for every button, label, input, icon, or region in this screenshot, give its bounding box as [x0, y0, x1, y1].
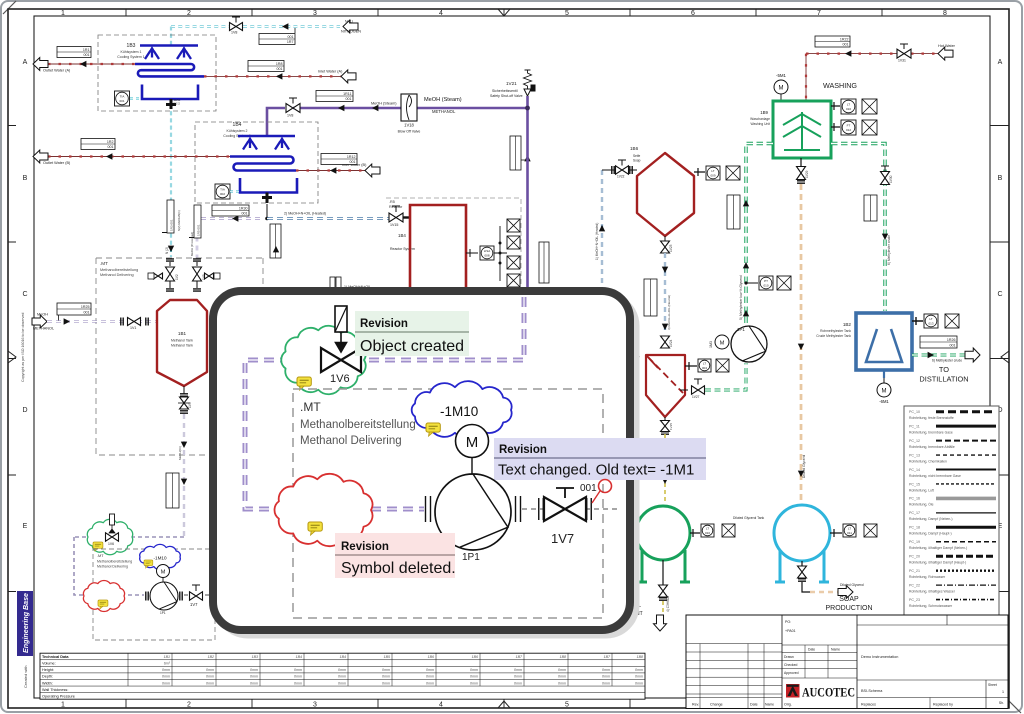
valve 1V8 steam [286, 98, 300, 113]
svg-text:6) Methylester crude: 6) Methylester crude [932, 359, 962, 363]
row letters left [22, 59, 27, 646]
svg-text:001: 001 [350, 160, 356, 164]
instrument box 1R7 [259, 34, 295, 45]
svg-text:001: 001 [84, 311, 90, 315]
instrument xbox r1 [507, 219, 520, 232]
svg-text:Sicherheitsventil: Sicherheitsventil [492, 89, 518, 93]
separator 1B7 [646, 355, 685, 417]
svg-text:002: 002 [220, 192, 225, 196]
svg-text:.MT: .MT [97, 554, 104, 558]
svg-text:Kühlsystem 1: Kühlsystem 1 [120, 50, 141, 54]
revision cloud blue [412, 381, 512, 439]
motor -5M1 [774, 80, 788, 94]
svg-text:1V23: 1V23 [669, 244, 673, 252]
flow arrow green down [882, 234, 888, 240]
cooler 1B3 basin [142, 85, 198, 100]
tank 1B8 cyan [774, 505, 830, 561]
svg-text:1B6: 1B6 [630, 146, 639, 151]
svg-text:1V6: 1V6 [108, 542, 114, 546]
svg-text:Revision: Revision [499, 444, 547, 456]
deleted symbol marker [592, 480, 612, 504]
valve actuator 1V6 [335, 306, 347, 352]
svg-text:Methanol Tank: Methanol Tank [171, 344, 193, 348]
arrow down vertical plant [654, 615, 667, 631]
svg-text:METHANOL: METHANOL [432, 109, 456, 114]
wire TIA 1B4 stub [230, 191, 240, 193]
svg-text:PC_22: PC_22 [909, 583, 920, 587]
svg-text:0mm: 0mm [635, 668, 643, 672]
valve 1V26 [659, 560, 668, 600]
svg-text:M: M [466, 434, 479, 451]
wire mini loop left [74, 537, 144, 595]
svg-text:.R5: .R5 [389, 200, 395, 204]
control valve 1V5 [193, 259, 202, 291]
valve 1V28 [798, 561, 807, 581]
engineering base banner [17, 591, 33, 656]
instrument tag cyan drop [162, 200, 174, 233]
instrument pair left of green [706, 166, 740, 180]
wire green left leg [746, 144, 773, 327]
svg-text:010: 010 [705, 531, 710, 535]
instrument xbox r2 [507, 236, 520, 249]
svg-text:MeOH (Steam): MeOH (Steam) [371, 102, 397, 106]
svg-text:1V15: 1V15 [390, 223, 398, 227]
svg-text:1B6: 1B6 [472, 655, 478, 659]
svg-text:8: 8 [943, 10, 947, 17]
svg-text:N(2)·MeOH/N(1): N(2)·MeOH/N(1) [177, 210, 181, 231]
svg-text:Rohrleitung, ölhaltiger Dampf: Rohrleitung, ölhaltiger Dampf (Haupt-) [909, 561, 966, 565]
wire green pump suction [705, 363, 746, 390]
svg-text:Hot Water: Hot Water [938, 44, 956, 48]
svg-text:0mm: 0mm [558, 675, 566, 679]
svg-text:1V21: 1V21 [506, 81, 517, 86]
arrow inlet water A [341, 70, 356, 83]
wire green tank right stub [690, 529, 700, 537]
svg-text:0mm: 0mm [382, 668, 390, 672]
svg-text:1R1: 1R1 [83, 48, 90, 52]
motor M mini [157, 565, 170, 578]
technical data table [40, 653, 645, 699]
svg-text:PC_13: PC_13 [909, 453, 920, 457]
valve 1V6 mini [106, 514, 119, 541]
svg-text:3: 3 [313, 702, 317, 709]
wire mini loop [74, 536, 184, 538]
callout shadow [218, 296, 636, 635]
wire LISA to cluster [494, 226, 507, 281]
svg-text:1P1: 1P1 [160, 611, 166, 615]
svg-text:1B9: 1B9 [760, 110, 768, 115]
instrument box 1R30 [212, 205, 249, 216]
svg-text:001: 001 [288, 35, 294, 39]
instrument box 1R12 [321, 154, 357, 165]
svg-text:Name: Name [831, 648, 840, 652]
svg-text:5: 5 [565, 702, 569, 709]
svg-text:B: B [998, 175, 1003, 182]
svg-text:+PA01: +PA01 [785, 629, 796, 633]
svg-text:1P1: 1P1 [737, 327, 745, 332]
flow arrow on outlet A [80, 61, 86, 67]
svg-text:1: 1 [61, 10, 65, 17]
arrow outlet water B [33, 150, 48, 163]
flow arrow inlet A [276, 73, 282, 79]
svg-text:1R26: 1R26 [947, 338, 956, 342]
svg-text:1B1: 1B1 [178, 331, 187, 336]
region box MT dashed [96, 258, 263, 455]
svg-text:1B8: 1B8 [637, 655, 643, 659]
svg-text:C: C [22, 291, 27, 298]
svg-text:Rohrleitung, ölhaltiger Dampf: Rohrleitung, ölhaltiger Dampf (Neben-) [909, 546, 967, 550]
wire MeOH steam purple [267, 108, 528, 136]
svg-text:0mm: 0mm [294, 668, 302, 672]
flow arrow purple 2 [372, 105, 378, 111]
cooler 1B3 top line [140, 44, 198, 46]
wire 1R25 ref [58, 315, 60, 322]
instrument LT 1B7 [698, 359, 711, 372]
svg-text:PC_11: PC_11 [909, 424, 920, 428]
svg-text:SEN1: SEN1 [174, 98, 181, 102]
svg-text:6: 6 [691, 10, 695, 17]
wire 1B1 drop [183, 414, 185, 537]
svg-text:2: 2 [187, 10, 191, 17]
revision cloud green [281, 326, 365, 394]
instrument vbox purple drop [510, 136, 521, 170]
flange 1V1 right [146, 318, 148, 326]
svg-text:1R3·001: 1R3·001 [170, 219, 174, 231]
svg-text:Blow Off Valve: Blow Off Valve [398, 130, 421, 134]
valve 1V3 [178, 397, 190, 409]
svg-text:Volume:: Volume: [42, 662, 56, 666]
svg-text:PC_18: PC_18 [909, 526, 920, 530]
svg-text:0mm: 0mm [294, 681, 302, 685]
svg-text:BSI-Schema: BSI-Schema [861, 689, 883, 693]
revision label symbol deleted [335, 533, 456, 578]
svg-text:001: 001 [950, 344, 956, 348]
svg-text:4: 4 [439, 702, 443, 709]
tank 1B1 [157, 300, 207, 386]
yellow tag mini green [93, 542, 103, 551]
svg-text:5: 5 [565, 10, 569, 17]
svg-text:Copyright as per ISO 16016 to: Copyright as per ISO 16016 to be observe… [21, 313, 25, 382]
svg-text:MeOH (Processed): MeOH (Processed) [190, 232, 194, 256]
column boundary ticks [126, 9, 882, 708]
cooler 1B4 spray 2 [279, 137, 285, 143]
svg-text:Rohrleitung, brennbare Gase: Rohrleitung, brennbare Gase [909, 430, 953, 434]
valve 1V30 [879, 166, 891, 185]
svg-text:0mm: 0mm [558, 681, 566, 685]
svg-text:001: 001 [119, 99, 124, 103]
svg-text:Replaces: Replaces [861, 703, 876, 707]
svg-text:1V22: 1V22 [617, 175, 625, 179]
wire inlet water A [204, 75, 341, 77]
instrument vbox green1 [727, 195, 740, 229]
svg-text:M: M [720, 341, 725, 347]
svg-text:1B3: 1B3 [127, 43, 136, 49]
revision label object created [355, 311, 469, 356]
wire 1B2 motor [883, 370, 885, 378]
flow arrow hot water [845, 50, 851, 56]
svg-text:Soap: Soap [633, 159, 641, 163]
column numbers top [61, 10, 947, 17]
flow arrow 1B6 down [662, 267, 668, 273]
cooler 1B4 top line [238, 135, 295, 137]
svg-text:0mm: 0mm [635, 675, 643, 679]
svg-text:0mm: 0mm [514, 675, 522, 679]
wire MeOH lavender [47, 320, 157, 322]
svg-text:C: C [997, 291, 1002, 298]
svg-text:Diluted Glycerol: Diluted Glycerol [802, 454, 806, 478]
instrument xbox 1B2 [945, 314, 959, 328]
wire 1B1 outlet [183, 386, 185, 394]
tank 1B6 [637, 153, 694, 236]
svg-text:Rohrleitung, Dampf (Haupt-): Rohrleitung, Dampf (Haupt-) [909, 532, 952, 536]
svg-text:PC_23: PC_23 [909, 598, 920, 602]
wire outlet water B [48, 156, 230, 158]
svg-text:N (2): N (2) [165, 247, 169, 254]
svg-text:A: A [998, 59, 1003, 66]
junction dots cluster [499, 252, 502, 255]
instrument TIA 1B3 [115, 91, 130, 106]
pump 1P1 main [731, 326, 767, 362]
instrument tag lavender drop [189, 205, 201, 238]
svg-text:1V1: 1V1 [130, 326, 136, 330]
svg-text:7: 7 [817, 10, 821, 17]
svg-text:001: 001 [346, 97, 352, 101]
wire cyan 1B3 top [170, 27, 172, 46]
svg-text:1B3: 1B3 [252, 655, 258, 659]
valve 1V1 [128, 318, 141, 326]
flange pump right [516, 496, 521, 522]
yellow tag mini blue [144, 560, 153, 568]
svg-text:009: 009 [710, 173, 715, 177]
arrow outlet water A [33, 58, 48, 71]
motor 1M3 [715, 335, 729, 349]
wire reactor to LISA [466, 249, 478, 257]
instrument vbox drop [166, 473, 179, 508]
wire hot water drop [805, 54, 807, 100]
svg-text:Date: Date [808, 648, 815, 652]
wire nitrogen ref [294, 28, 296, 33]
svg-text:1V18: 1V18 [404, 123, 414, 128]
instrument vbox green2 [864, 195, 877, 221]
svg-text:Replaced by: Replaced by [933, 703, 953, 707]
svg-text:Sheet: Sheet [988, 683, 997, 687]
svg-text:Rohrleitung, ölhaltiges Wasser: Rohrleitung, ölhaltiges Wasser [909, 589, 956, 593]
instrument LT 1B8 [843, 524, 856, 537]
wire 1V22 feed [601, 170, 603, 294]
svg-text:PC_16: PC_16 [909, 497, 920, 501]
wire vbox stub purple [521, 159, 528, 161]
svg-text:2: 2 [187, 702, 191, 709]
wire washing right instruments1 [831, 102, 840, 110]
svg-text:Diluted Glycerol: Diluted Glycerol [840, 583, 864, 587]
svg-text:Rohrleitung, Rohwasser: Rohrleitung, Rohwasser [909, 575, 946, 579]
wire mini from pump [184, 594, 213, 596]
wire 1B6 down [664, 253, 666, 333]
svg-text:3: 3 [313, 10, 317, 17]
svg-text:Name: Name [765, 703, 774, 707]
svg-text:004: 004 [702, 366, 707, 370]
valve 1V15 [389, 206, 403, 222]
svg-text:1) MeOH+N+OIL (Heated): 1) MeOH+N+OIL (Heated) [595, 223, 599, 260]
wire outlet water A [48, 63, 137, 65]
svg-text:M: M [882, 389, 887, 395]
arrow inlet water B [365, 164, 380, 177]
wire yellow to tank [664, 434, 666, 503]
column numbers bottom [61, 702, 569, 709]
wire steelblue to reactor [267, 217, 390, 219]
svg-text:Object created: Object created [360, 338, 464, 355]
flange pump mini right [180, 592, 182, 601]
svg-text:1V29: 1V29 [805, 170, 809, 178]
yellow tag mini red [98, 600, 108, 609]
svg-text:0mm: 0mm [338, 681, 346, 685]
svg-text:0mm: 0mm [162, 668, 170, 672]
wire big gray pipe right [522, 508, 620, 510]
instrument xbox greentank [722, 524, 735, 537]
legend pipe classes [904, 406, 999, 615]
wire inlet water B [296, 170, 365, 172]
flow arrow drop2 [181, 479, 187, 485]
instrument xbox washing2 [862, 120, 877, 135]
revision label text changed [494, 438, 706, 480]
svg-text:0mm: 0mm [250, 681, 258, 685]
revision cloud red mini [83, 580, 124, 611]
svg-text:Cooling System 1: Cooling System 1 [117, 55, 144, 59]
flow arrow inlet B [330, 167, 336, 173]
svg-text:Date: Date [750, 703, 758, 707]
cooler 1B3 spray 2 [181, 46, 187, 52]
instrument vbox 540 [539, 242, 549, 283]
cooler 1B3 spray 1 [149, 46, 155, 52]
flow arrow lavender [232, 215, 238, 221]
valve 1V23 [659, 236, 671, 253]
valve 1V24 [661, 324, 670, 348]
instrument xbox 1B8 [864, 524, 877, 537]
svg-text:Rohrleitung, Schmutzwasser: Rohrleitung, Schmutzwasser [909, 604, 953, 608]
reactor vessel 1B4 [410, 205, 466, 291]
svg-text:1V25: 1V25 [669, 423, 673, 430]
instrument box 1R25 [57, 303, 91, 315]
svg-text:0mm: 0mm [382, 675, 390, 679]
svg-text:001: 001 [242, 212, 248, 216]
blow off valve 1V18 [401, 94, 417, 121]
svg-text:PC_19: PC_19 [909, 540, 920, 544]
svg-text:PO:: PO: [785, 620, 791, 624]
svg-text:0mm: 0mm [426, 675, 434, 679]
wire lavender to 1V5 [197, 219, 260, 259]
wire orange diluted glycerol [800, 184, 802, 503]
svg-text:Demo Instrumentation: Demo Instrumentation [861, 655, 898, 659]
svg-text:0mm: 0mm [338, 675, 346, 679]
svg-text:Rohrleitung, Öle: Rohrleitung, Öle [909, 503, 934, 507]
instrument LT washing2 [841, 120, 856, 135]
motor M big [456, 425, 489, 458]
svg-text:Operating Pressure: Operating Pressure [42, 694, 75, 698]
svg-text:1B8: 1B8 [560, 655, 566, 659]
cooler 1B3 coil [135, 64, 204, 76]
svg-text:PC_21: PC_21 [909, 569, 920, 573]
instrument LISA [480, 246, 494, 260]
svg-text:1R8: 1R8 [276, 62, 283, 66]
flange 1B1 outlet [180, 394, 188, 396]
svg-text:010: 010 [846, 107, 851, 111]
svg-text:001: 001 [84, 53, 90, 57]
svg-text:Washing Unit: Washing Unit [751, 122, 771, 126]
svg-text:Rohrleitung, Chemikalien: Rohrleitung, Chemikalien [909, 459, 947, 463]
flow arrow outlet B [106, 153, 112, 159]
flow arrow green up1 [743, 200, 749, 206]
svg-text:1P1: 1P1 [462, 552, 480, 563]
svg-text:001: 001 [108, 145, 114, 149]
svg-text:PRODUCTION: PRODUCTION [825, 605, 872, 612]
wire green PT stub [746, 282, 758, 284]
svg-text:Outlet Water (A): Outlet Water (A) [43, 69, 71, 73]
svg-text:1R2: 1R2 [107, 140, 114, 144]
svg-text:1B1: 1B1 [164, 655, 170, 659]
svg-text:1B7: 1B7 [604, 655, 611, 659]
svg-text:1R5·001: 1R5·001 [197, 224, 201, 236]
wire 1V25 [664, 417, 666, 421]
wire 1B7 right stub [685, 362, 697, 370]
cooler 1B4 coil [230, 157, 296, 171]
valve 1V7 mini [190, 585, 203, 600]
instrument TIA 1B4 [215, 184, 230, 199]
svg-text:PC_15: PC_15 [909, 482, 920, 486]
instrument LT 1B2 [924, 314, 938, 328]
svg-text:-1M10: -1M10 [440, 404, 478, 419]
svg-text:0mm: 0mm [206, 675, 214, 679]
flow arrow green up2 [743, 262, 749, 268]
svg-text:0mm: 0mm [250, 668, 258, 672]
svg-text:Height:: Height: [42, 668, 54, 672]
flow arrow 1B2 out [928, 352, 934, 358]
svg-text:1B2: 1B2 [208, 655, 214, 659]
valve 1V31 [897, 44, 911, 58]
svg-text:0mm: 0mm [514, 668, 522, 672]
svg-text:1V30: 1V30 [889, 175, 893, 183]
flange cross 1B4 [262, 193, 272, 204]
svg-text:0mm: 0mm [206, 681, 214, 685]
svg-text:0mm: 0mm [162, 681, 170, 685]
svg-text:Rohrleitung, Luft: Rohrleitung, Luft [909, 488, 934, 492]
svg-text:0mm: 0mm [635, 681, 643, 685]
svg-text:1R7: 1R7 [287, 40, 294, 44]
flow arrow steelblue up [273, 246, 279, 252]
heater symbol [330, 277, 341, 288]
svg-text:1V7: 1V7 [551, 531, 574, 546]
svg-text:0mm: 0mm [602, 668, 610, 672]
svg-text:1B4: 1B4 [398, 233, 406, 238]
instrument box 1R22 [815, 36, 850, 47]
svg-text:2) MeOH+N+OIL (Heated): 2) MeOH+N+OIL (Heated) [284, 212, 326, 216]
svg-text:Crude Methylester Tank: Crude Methylester Tank [816, 334, 851, 338]
region box MT mini dashed [93, 549, 215, 640]
svg-text:4) C3H8O3: 4) C3H8O3 [666, 596, 670, 612]
flange pump mini left [146, 592, 148, 601]
wire hot water [806, 53, 938, 55]
yellow tag green cloud [297, 377, 311, 390]
wire 1B7 to 1V27 [680, 389, 688, 391]
svg-text:4: 4 [439, 10, 443, 17]
yellow tag blue cloud [426, 423, 440, 436]
arrow MeOH inlet [32, 315, 47, 328]
region box R5 dashed [386, 198, 521, 291]
svg-text:1B4: 1B4 [233, 122, 242, 128]
svg-text:.MT: .MT [100, 261, 108, 266]
flange pump left [426, 496, 431, 522]
svg-text:Diluted Glycerol Tank: Diluted Glycerol Tank [733, 516, 764, 520]
wire purple drop to callout [526, 96, 529, 291]
